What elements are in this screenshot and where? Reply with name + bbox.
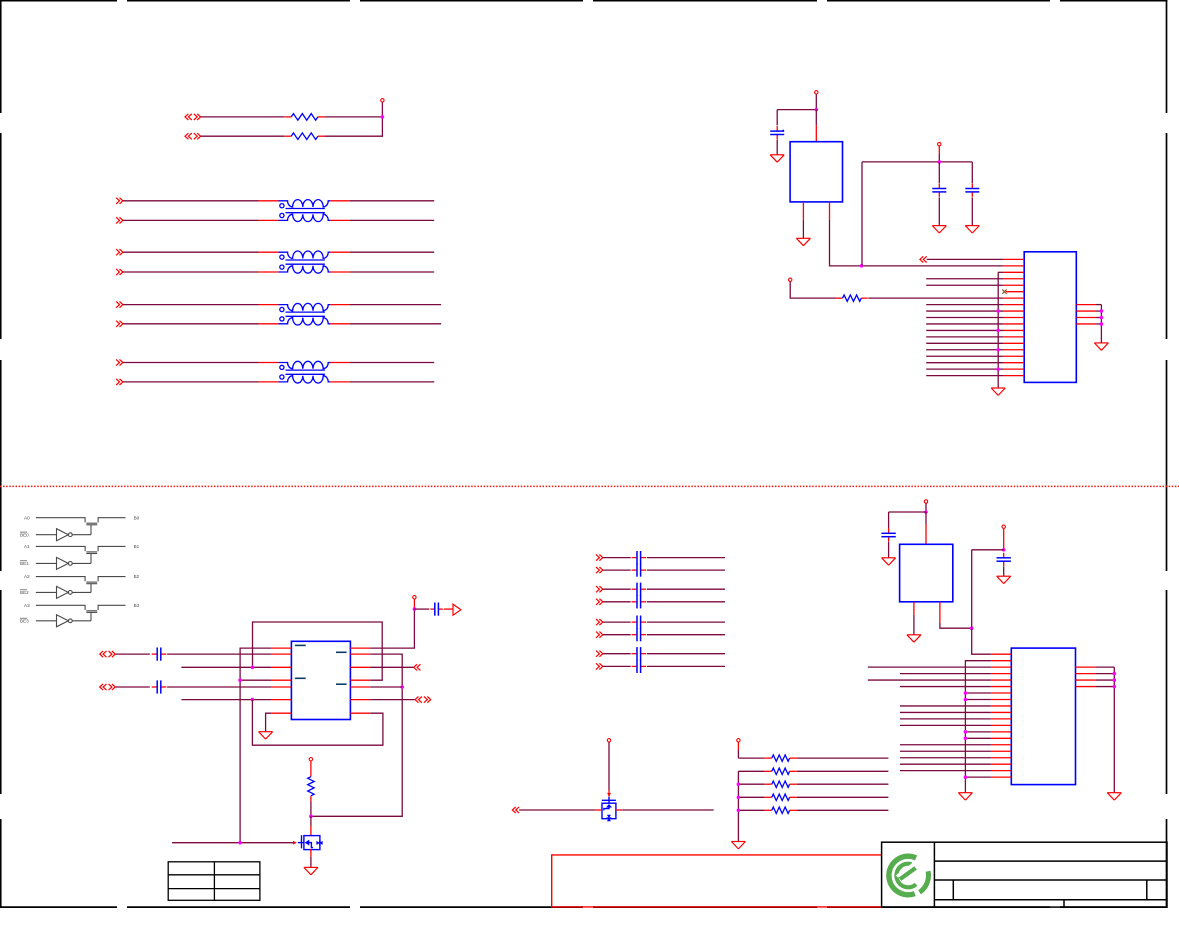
wire: [1100, 305, 1102, 343]
wire: [172, 842, 293, 844]
port P4: [116, 217, 123, 223]
wire: [266, 713, 272, 732]
wire: [330, 323, 349, 325]
pin: [1076, 323, 1096, 325]
wire: [259, 323, 279, 325]
resistor R7: [765, 781, 797, 787]
wire: [349, 271, 434, 273]
capacitor C3: [965, 184, 979, 197]
wire: [1003, 529, 1005, 550]
ground: [1094, 343, 1108, 350]
wire: [738, 757, 764, 759]
port P33: [415, 697, 431, 703]
ic U1: [790, 142, 842, 202]
svg-text:B1: B1: [134, 544, 140, 549]
wire: [926, 362, 1003, 364]
pin: [350, 666, 370, 668]
bus wire: [737, 771, 739, 841]
ground: [1107, 793, 1121, 800]
svg-text:B2: B2: [134, 574, 140, 579]
wire: [965, 737, 991, 739]
wire: [925, 503, 927, 512]
wire: [349, 251, 434, 253]
wire: [349, 219, 434, 221]
wire: [889, 511, 926, 513]
wire: [790, 282, 836, 298]
pin 7: [991, 692, 1011, 694]
wire: [900, 711, 991, 713]
pin 6: [991, 686, 1011, 688]
wire: [1095, 673, 1114, 675]
wire: [926, 304, 1003, 306]
wire: [926, 336, 1003, 338]
port arrow: [453, 604, 461, 615]
wire: [998, 271, 1003, 273]
resistor R9: [765, 807, 797, 813]
pin 5: [1003, 284, 1024, 286]
wire: [926, 355, 1003, 357]
wire: [861, 162, 863, 266]
capacitor C9: [632, 628, 647, 641]
junction: [737, 796, 741, 800]
junction: [1100, 309, 1104, 313]
wire: [201, 116, 285, 118]
wire: [776, 110, 778, 126]
section divider: [0, 485, 1179, 487]
wire: [603, 653, 631, 655]
wire: [123, 200, 259, 202]
capacitor C5: [632, 564, 647, 577]
wire: [259, 304, 279, 306]
pin 6: [1006, 291, 1024, 293]
wire: [616, 809, 622, 811]
wire: [349, 200, 434, 202]
junction: [964, 775, 968, 779]
pin 14: [991, 737, 1011, 739]
bus wire: [972, 550, 991, 654]
power VCC4: [789, 278, 792, 281]
connector U2: [1024, 252, 1076, 383]
wire: [797, 757, 888, 759]
wire: [330, 219, 349, 221]
wire: [413, 599, 415, 609]
wire: [1095, 679, 1114, 681]
wire: [310, 849, 312, 868]
junction: [860, 264, 864, 268]
junction: [1100, 316, 1104, 320]
transistor Q1: [298, 835, 323, 849]
port P20: [596, 555, 603, 561]
junction: [815, 108, 819, 112]
wire: [324, 102, 382, 136]
wire: [737, 742, 739, 758]
wire: [940, 622, 972, 628]
wire: [913, 615, 915, 635]
pin 18: [1003, 368, 1024, 370]
wire: [802, 220, 804, 239]
pin marker: [336, 651, 347, 653]
junction: [938, 160, 942, 164]
bus wire: [965, 661, 991, 793]
pin: [272, 686, 292, 688]
wire: [603, 569, 631, 571]
svg-text:B0: B0: [134, 515, 140, 520]
wire: [311, 654, 402, 816]
pin marker: [295, 677, 306, 679]
pin: [1076, 304, 1096, 306]
capacitor C12: [152, 648, 167, 661]
title block: [882, 842, 1167, 907]
wire: [738, 770, 764, 772]
capacitor C6: [632, 583, 647, 596]
wire: [965, 692, 991, 694]
capacitor C7: [632, 595, 647, 608]
wire: [116, 653, 150, 655]
pin: [350, 699, 370, 701]
junction: [238, 678, 242, 682]
pin 10: [991, 711, 1011, 713]
wire: [259, 200, 279, 202]
wire: [738, 796, 764, 798]
wire: [123, 219, 259, 221]
resistor R2: [285, 133, 325, 140]
resistor R5: [765, 755, 797, 761]
pin: [1076, 666, 1096, 668]
pin 17: [991, 757, 1011, 759]
junction: [1002, 548, 1006, 552]
ground: [907, 635, 921, 642]
port P11: [920, 256, 927, 262]
wire: [1096, 310, 1101, 312]
wire: [647, 665, 725, 667]
wire: [259, 381, 279, 383]
pin: [1076, 317, 1096, 319]
port P9: [116, 359, 123, 365]
connector U5: [1011, 648, 1075, 785]
wire: [900, 757, 991, 759]
power VCC5: [413, 596, 416, 599]
wire: [868, 297, 1003, 299]
wire: [926, 323, 1003, 325]
ic U3: [291, 641, 350, 719]
wire: [647, 653, 725, 655]
wire: [259, 362, 279, 364]
capacitor C11: [632, 660, 647, 673]
ground: [997, 576, 1011, 583]
pin 15: [1003, 349, 1024, 351]
svg-text:A2: A2: [24, 574, 30, 579]
wire: [603, 665, 631, 667]
wire: [797, 783, 888, 785]
wire: [900, 763, 991, 765]
pin: [1076, 310, 1096, 312]
transformer T3: [279, 303, 331, 325]
pin 20: [991, 776, 1011, 778]
capacitor C16: [997, 553, 1011, 566]
junction: [251, 698, 255, 702]
wire: [123, 251, 259, 253]
wire: [608, 742, 610, 796]
junction: [996, 367, 1000, 371]
pin 11: [1003, 323, 1024, 325]
wire: [1113, 667, 1115, 793]
bus-switch channel 0: [20, 515, 140, 540]
wire: [926, 284, 1003, 286]
wire: [900, 686, 991, 688]
pin 11: [991, 718, 1011, 720]
pin 10: [1003, 317, 1024, 319]
wire: [330, 362, 349, 364]
wire: [123, 381, 259, 383]
wire: [965, 776, 991, 778]
pin 9: [991, 705, 1011, 707]
port P25: [596, 632, 603, 638]
wire: [444, 608, 453, 610]
resistor R6: [765, 768, 797, 774]
junction: [970, 626, 974, 630]
wire: [181, 699, 271, 701]
wire: [370, 609, 414, 648]
wire: [603, 634, 631, 636]
wire: [1095, 666, 1114, 668]
wire: [972, 549, 1004, 551]
revision table: [168, 862, 260, 901]
wire: [181, 666, 271, 668]
junction: [737, 809, 741, 813]
wire: [926, 375, 1003, 377]
port P26: [596, 651, 603, 657]
transistor Q2: [602, 797, 616, 821]
wire: [797, 809, 888, 811]
bus-switch channel 2: [20, 574, 140, 598]
wire: [900, 750, 991, 752]
wire: [167, 686, 272, 688]
pin: [913, 602, 915, 615]
pin: [272, 679, 292, 681]
pin 16: [1003, 355, 1024, 357]
wire: [938, 162, 940, 183]
pin 2: [1003, 265, 1024, 267]
port P3: [116, 198, 123, 204]
wire: [240, 648, 272, 843]
wire: [603, 621, 631, 623]
port P30: [100, 651, 116, 657]
pin 3: [991, 666, 1011, 668]
junction: [996, 348, 1000, 352]
wire: [330, 200, 349, 202]
wire: [1096, 323, 1101, 325]
wire: [349, 362, 434, 364]
wire: [862, 161, 972, 163]
wire: [971, 197, 973, 225]
capacitor C10: [632, 647, 647, 660]
ground: [796, 238, 810, 245]
wire: [259, 271, 279, 273]
junction: [309, 815, 313, 819]
pin 5: [991, 679, 1011, 681]
junction: [238, 841, 242, 845]
wire: [926, 329, 1003, 331]
pin 15: [991, 744, 1011, 746]
port P27: [596, 663, 603, 669]
pin 9: [1003, 310, 1024, 312]
wire: [926, 278, 1003, 280]
pin: [350, 679, 370, 681]
wire: [647, 601, 725, 603]
junction: [964, 730, 968, 734]
svg-text:BE1: BE1: [20, 561, 29, 566]
power VCC6: [309, 758, 312, 761]
port P32: [414, 664, 421, 670]
wire: [927, 258, 1004, 260]
wire: [900, 705, 991, 707]
pin: [350, 653, 370, 655]
wire: [868, 679, 991, 681]
wire: [253, 622, 383, 680]
port P10: [116, 379, 123, 385]
wire: [797, 770, 888, 772]
pin 4: [1003, 278, 1024, 280]
port P34: [512, 807, 519, 813]
ground: [932, 226, 946, 233]
no-connect mark: [1002, 289, 1006, 293]
pin: [802, 202, 804, 220]
pin: [272, 666, 292, 668]
wire: [815, 94, 817, 109]
power VCC9: [924, 500, 927, 503]
wire: [252, 700, 383, 746]
pin 1: [991, 653, 1011, 655]
pin: [1076, 673, 1096, 675]
wire: [330, 271, 349, 273]
wire: [815, 110, 817, 142]
wire: [123, 304, 259, 306]
wire: [965, 731, 991, 733]
wire: [310, 796, 312, 817]
power VCC1: [381, 99, 384, 102]
pin: [829, 202, 831, 220]
port P6: [116, 269, 123, 275]
resistor R4: [308, 777, 314, 796]
capacitor C8: [632, 616, 647, 629]
wire: [1003, 566, 1005, 576]
junction: [1113, 672, 1117, 676]
wire: [349, 304, 441, 306]
wire: [167, 653, 272, 655]
port P24: [596, 619, 603, 625]
ground: [259, 732, 273, 739]
wire: [259, 219, 279, 221]
junction: [737, 782, 741, 786]
wire: [603, 601, 631, 603]
transformer T4: [279, 361, 331, 383]
power VCC3: [938, 142, 941, 145]
wire: [738, 783, 764, 785]
junction: [1100, 322, 1104, 326]
pin 13: [991, 731, 1011, 733]
wire: [900, 724, 991, 726]
wire: [888, 542, 890, 558]
pin: [272, 699, 292, 701]
wire: [603, 557, 631, 559]
svg-text:BE0: BE0: [20, 532, 29, 537]
pin 16: [991, 750, 1011, 752]
svg-text:A0: A0: [24, 515, 30, 520]
bus wire: [997, 272, 999, 388]
ground: [965, 226, 979, 233]
pin marker: [295, 644, 306, 646]
pin 2: [991, 660, 1011, 662]
pin: [939, 602, 941, 622]
wire: [776, 140, 778, 155]
wire: [900, 673, 991, 675]
port P31: [100, 684, 116, 690]
pin 17: [1003, 362, 1024, 364]
transformer T1: [279, 200, 331, 222]
wire: [310, 816, 312, 836]
pin 19: [1003, 375, 1024, 377]
wire: [622, 809, 714, 811]
wire: [938, 197, 940, 225]
port P8: [116, 321, 123, 327]
pin: [350, 712, 370, 714]
wire: [259, 251, 279, 253]
wire: [777, 109, 816, 111]
ground: [304, 867, 318, 874]
pin: [272, 712, 292, 714]
power VCC7: [607, 739, 610, 742]
pin 13: [1003, 336, 1024, 338]
junction: [964, 737, 968, 741]
logo: [889, 856, 929, 896]
ic U4: [900, 544, 953, 602]
wire: [201, 135, 285, 137]
wire: [123, 323, 259, 325]
wire: [868, 666, 991, 668]
junction: [924, 510, 928, 514]
wire: [900, 770, 991, 772]
junction: [964, 691, 968, 695]
capacitor C1: [770, 126, 784, 139]
wire: [370, 686, 402, 688]
bus-switch channel 3: [20, 603, 140, 627]
svg-text:A1: A1: [24, 544, 30, 549]
highlight box: [552, 855, 882, 907]
wire: [123, 362, 259, 364]
wire: [738, 809, 764, 811]
port P7: [116, 302, 123, 308]
ground: [991, 388, 1005, 395]
wire: [926, 368, 1003, 370]
pin 3: [1003, 271, 1024, 273]
pin 7: [1003, 297, 1024, 299]
wire: [971, 162, 973, 183]
pin: [350, 647, 370, 649]
wire: [330, 304, 349, 306]
gate arrow: [607, 793, 611, 797]
junction: [996, 309, 1000, 313]
pin 12: [991, 724, 1011, 726]
pin: [1076, 686, 1096, 688]
wire: [647, 557, 725, 559]
transformer T2: [279, 251, 331, 273]
wire: [596, 809, 602, 811]
pin: [350, 686, 370, 688]
wire: [240, 679, 272, 681]
wire: [349, 381, 434, 383]
junction: [413, 607, 417, 611]
capacitor C14: [430, 603, 443, 616]
